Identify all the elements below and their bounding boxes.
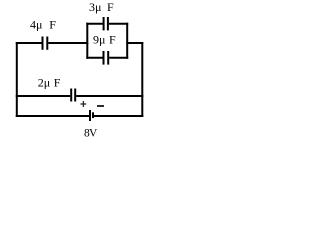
svg-text:8V: 8V — [84, 128, 98, 140]
svg-text:F: F — [54, 75, 61, 89]
svg-text:F: F — [109, 33, 116, 47]
svg-text:9μ: 9μ — [93, 33, 105, 47]
svg-text:F: F — [107, 0, 114, 14]
svg-text:F: F — [49, 17, 56, 31]
svg-text:3μ: 3μ — [89, 0, 101, 14]
svg-text:2μ: 2μ — [38, 75, 50, 89]
svg-text:4μ: 4μ — [30, 17, 42, 31]
